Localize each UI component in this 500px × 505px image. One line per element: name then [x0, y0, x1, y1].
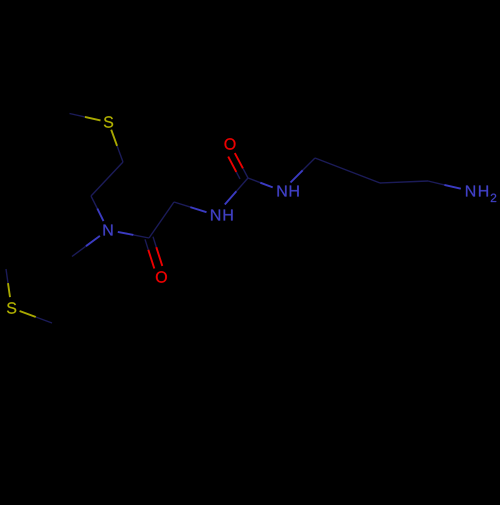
atom label N1 (amide nitrogen) [104, 225, 113, 236]
bond CH2-NH (alpha C to urea NH) [174, 202, 190, 207]
atom label S1 (thioether sulfur) [104, 116, 113, 127]
atom label NH' (urea nitrogen 2) [278, 186, 287, 197]
bond CH2-CH2 (chain) [380, 181, 428, 183]
bond C2-NH' (second urea nitrogen) [248, 178, 260, 183]
bond CH3-S2 (dimethyl sulfide) [6, 269, 8, 283]
bond CH2-CH2 (chain) [315, 158, 380, 183]
double bond C1=O1 (amide carbonyl) [145, 239, 148, 250]
bond CH2-N1 [91, 196, 97, 209]
bond CH2-NH2 (terminal amine) [428, 181, 444, 185]
bond S1-CH2 [111, 130, 117, 146]
bond CH2-CH2 (thioether ethylene) [91, 162, 123, 196]
atom label NH (urea nitrogen 1) [211, 210, 220, 221]
bond S2-CH3 (dimethyl sulfide) [20, 311, 36, 317]
double bond C2=O2 (urea carbonyl) [243, 168, 248, 178]
bond NH-C2 (urea carbonyl C) [225, 191, 237, 204]
atom label S2 (dimethyl sulfide sulfur) [7, 302, 16, 313]
atom label O1 (amide oxygen) [156, 271, 167, 282]
bond NH'-CH2 (butylamine chain start) [291, 170, 303, 182]
atom label O2 (urea oxygen) [225, 138, 236, 149]
bond N1-C1 (amide C-N) [118, 232, 134, 235]
atom label NH2 (terminal amine) [466, 186, 475, 197]
bond CH3-S1 (methyl to thioether S1) [70, 114, 85, 117]
bond C1-CH2 (alpha carbon) [149, 202, 174, 238]
bond N1-CH3 (N-methyl) [86, 236, 100, 246]
